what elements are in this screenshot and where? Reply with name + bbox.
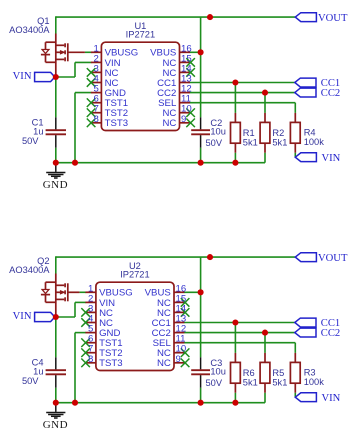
svg-text:50V: 50V: [206, 378, 223, 388]
svg-text:1u: 1u: [33, 366, 43, 376]
svg-text:100k: 100k: [304, 377, 325, 387]
svg-text:NC: NC: [162, 118, 176, 129]
svg-text:TST3: TST3: [99, 358, 122, 369]
svg-text:VIN: VIN: [322, 393, 341, 404]
svg-text:AO3400A: AO3400A: [9, 265, 50, 275]
svg-text:1u: 1u: [33, 126, 43, 136]
svg-text:R3: R3: [304, 368, 316, 378]
svg-text:CC2: CC2: [321, 88, 340, 99]
svg-text:R2: R2: [272, 128, 284, 138]
svg-text:50V: 50V: [22, 376, 39, 386]
svg-text:5k1: 5k1: [272, 138, 287, 148]
svg-text:100k: 100k: [304, 137, 325, 147]
svg-text:5k1: 5k1: [272, 378, 287, 388]
svg-text:5k1: 5k1: [243, 378, 258, 388]
svg-text:10u: 10u: [210, 127, 226, 137]
svg-text:GND: GND: [43, 419, 68, 431]
svg-text:9: 9: [181, 114, 186, 125]
svg-text:VOUT: VOUT: [318, 13, 348, 24]
svg-text:R1: R1: [243, 128, 255, 138]
svg-text:TST3: TST3: [105, 118, 128, 129]
svg-text:50V: 50V: [206, 138, 223, 148]
svg-text:VOUT: VOUT: [318, 253, 348, 264]
svg-text:8: 8: [94, 114, 99, 125]
svg-text:GND: GND: [43, 179, 68, 191]
svg-text:IP2721: IP2721: [120, 270, 149, 280]
svg-text:50V: 50V: [22, 136, 39, 146]
svg-text:5k1: 5k1: [243, 138, 258, 148]
svg-text:10u: 10u: [210, 367, 226, 377]
svg-text:R6: R6: [243, 368, 255, 378]
svg-text:NC: NC: [157, 358, 171, 369]
svg-text:R5: R5: [272, 368, 284, 378]
svg-text:VIN: VIN: [13, 71, 32, 82]
svg-text:CC2: CC2: [321, 328, 340, 339]
svg-text:VIN: VIN: [322, 153, 341, 164]
svg-text:8: 8: [88, 354, 93, 365]
svg-text:9: 9: [176, 354, 181, 365]
svg-text:VIN: VIN: [13, 311, 32, 322]
svg-text:IP2721: IP2721: [126, 30, 155, 40]
svg-text:AO3400A: AO3400A: [9, 25, 50, 35]
svg-text:R4: R4: [304, 128, 316, 138]
